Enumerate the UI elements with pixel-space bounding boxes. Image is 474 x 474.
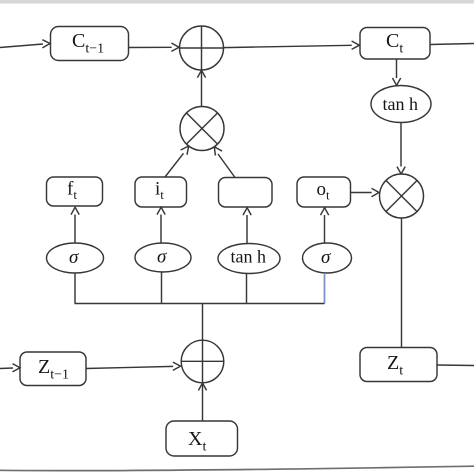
box candidate xyxy=(219,178,273,208)
wire tanh1 down xyxy=(246,274,248,304)
box it xyxy=(135,177,187,207)
wire sigma3 to ot xyxy=(324,215,326,244)
svg-text:Zt: Zt xyxy=(387,352,403,379)
wire input arrow into Ct-1 xyxy=(0,44,43,48)
ellipse tanh right xyxy=(371,86,431,123)
svg-text:Zt−1: Zt−1 xyxy=(38,356,69,383)
svg-text:Xt: Xt xyxy=(188,428,206,455)
svg-text:σ: σ xyxy=(321,247,331,268)
box Zt-1 xyxy=(20,352,86,386)
wire it to multiplier1 xyxy=(165,153,184,177)
svg-text:Ct: Ct xyxy=(386,30,403,57)
wire multiplier2 down to Zt xyxy=(401,218,403,348)
wire Zt-1 to adder2 xyxy=(86,366,173,368)
svg-text:ot: ot xyxy=(317,179,331,203)
svg-text:σ: σ xyxy=(157,247,167,268)
wire Zt to right edge xyxy=(437,364,474,367)
ellipse sigma1 xyxy=(47,243,104,273)
wire collector down through adder2 xyxy=(202,304,204,422)
wire sigma2 down xyxy=(161,272,163,304)
ellipse sigma2 xyxy=(135,243,191,272)
adder node plus1 xyxy=(180,26,224,70)
bottom scan line xyxy=(0,466,474,470)
svg-text:tan h: tan h xyxy=(231,247,267,267)
multiplier node mult2 xyxy=(380,174,424,218)
top scan bar xyxy=(0,0,474,4)
wire sigma1 down xyxy=(74,273,76,304)
wire candidate to multiplier1 xyxy=(218,154,235,178)
box Zt xyxy=(360,348,437,382)
wire sigma3 down blue xyxy=(324,273,326,304)
box Xt xyxy=(166,421,238,456)
svg-text:Ct−1: Ct−1 xyxy=(72,30,104,57)
wire Ct down to tanh xyxy=(396,59,398,78)
wire collector horizontal xyxy=(75,303,325,305)
ellipse sigma3 xyxy=(303,243,352,273)
svg-text:it: it xyxy=(155,179,164,203)
box ot xyxy=(297,177,351,207)
wire tanh1 to candidate xyxy=(246,215,248,244)
wire Ct-1 to adder xyxy=(129,46,172,48)
wire sigma1 to ft xyxy=(74,215,76,244)
wire ot to multiplier2 xyxy=(351,192,372,194)
svg-text:tan h: tan h xyxy=(383,94,419,114)
box Ct-1 xyxy=(51,27,129,61)
wire sigma2 to it xyxy=(160,215,162,244)
wire Ct to right edge xyxy=(430,44,474,45)
wire input arrow into Zt-1 xyxy=(0,367,13,370)
box Ct xyxy=(360,28,430,60)
box ft xyxy=(47,177,103,206)
wire tanh to multiplier2 xyxy=(400,123,402,167)
adder node plus2 xyxy=(181,340,224,383)
multiplier node mult1 xyxy=(180,107,224,151)
wire adder to Ct xyxy=(224,45,352,47)
svg-text:ft: ft xyxy=(67,179,77,203)
ellipse tanh middle xyxy=(218,244,280,274)
svg-text:σ: σ xyxy=(69,247,79,268)
